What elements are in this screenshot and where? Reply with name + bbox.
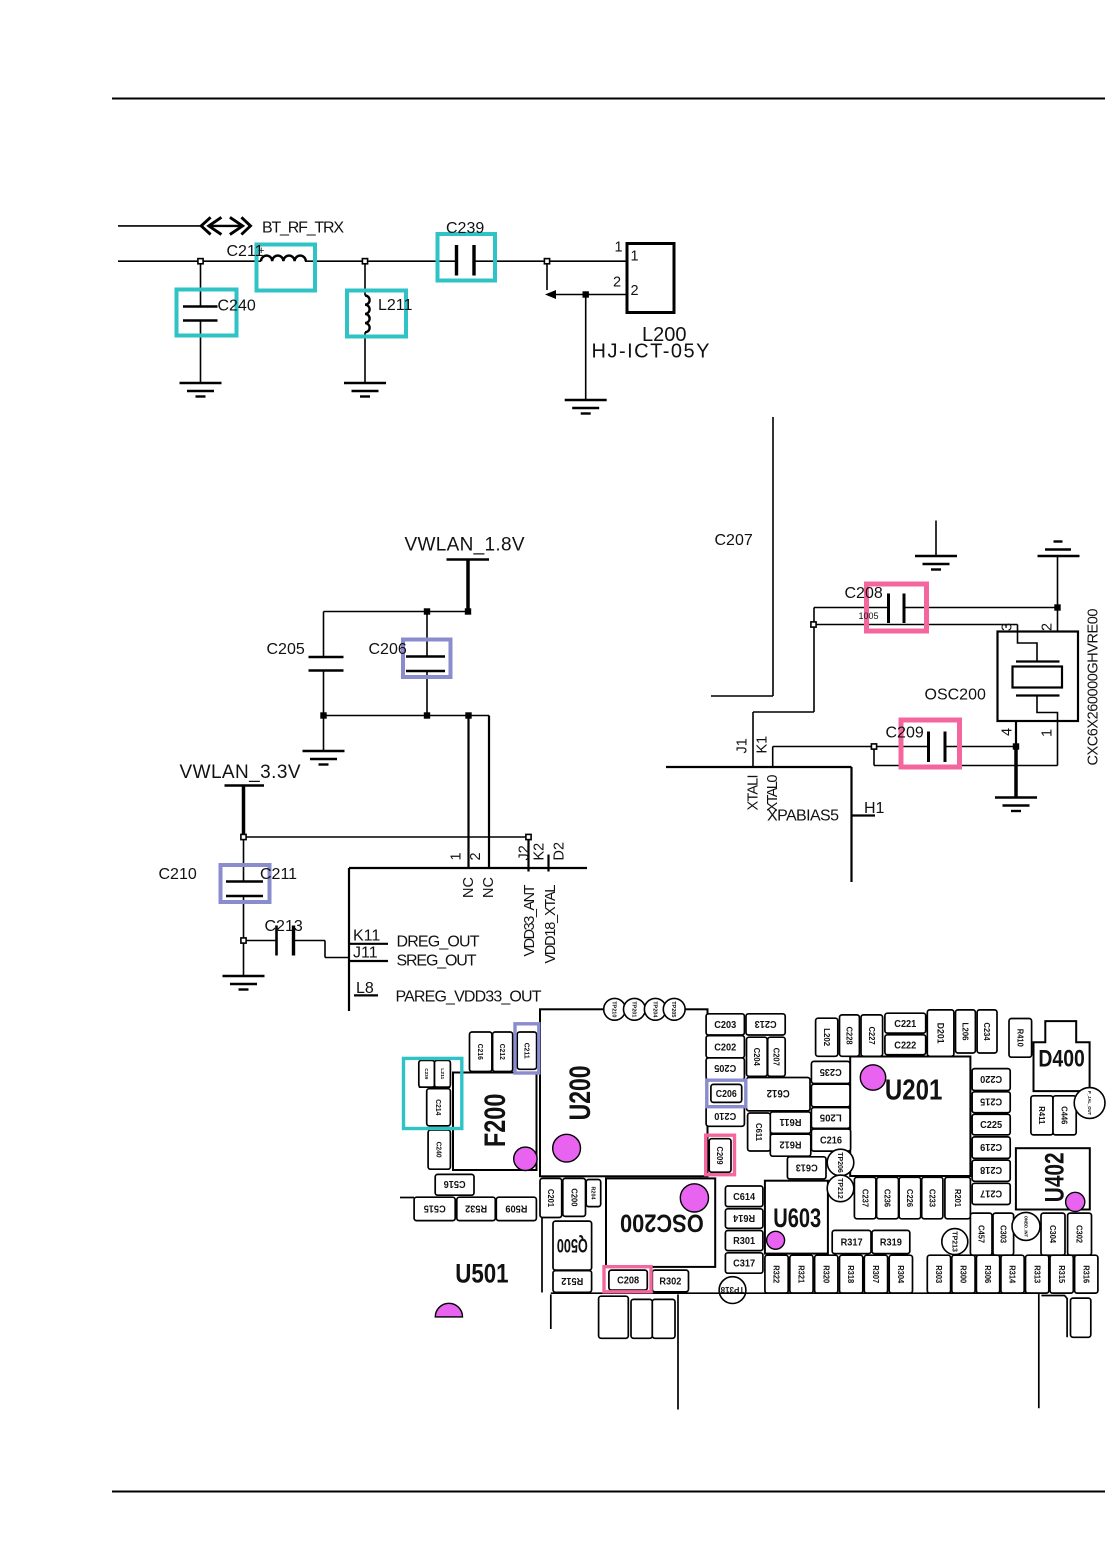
svg-text:C214: C214: [434, 1099, 441, 1115]
svg-text:2: 2: [613, 275, 621, 291]
svg-text:1005: 1005: [859, 611, 879, 621]
svg-text:C317: C317: [733, 1259, 755, 1270]
svg-text:C219: C219: [980, 1141, 1002, 1152]
svg-text:VDD33_ANT: VDD33_ANT: [522, 884, 538, 956]
svg-text:R532: R532: [465, 1202, 487, 1213]
svg-text:ONBD_INT: ONBD_INT: [1024, 1216, 1029, 1238]
svg-text:C212: C212: [498, 1044, 505, 1060]
svg-text:J1: J1: [734, 738, 750, 753]
svg-text:C201: C201: [546, 1189, 555, 1208]
svg-text:R614: R614: [733, 1212, 755, 1223]
svg-text:R611: R611: [779, 1116, 801, 1127]
svg-text:C210: C210: [159, 866, 197, 883]
svg-text:DREG_OUT: DREG_OUT: [397, 934, 480, 951]
svg-text:U603: U603: [773, 1203, 821, 1233]
svg-text:XTAL0: XTAL0: [765, 775, 781, 812]
svg-text:C207: C207: [715, 532, 753, 549]
svg-text:R313: R313: [1032, 1265, 1041, 1284]
svg-text:H1: H1: [864, 800, 885, 817]
svg-text:J2: J2: [516, 845, 532, 860]
svg-text:2: 2: [1039, 623, 1055, 631]
svg-text:L205: L205: [819, 1111, 841, 1122]
svg-text:C515: C515: [423, 1202, 445, 1213]
svg-text:C220: C220: [980, 1073, 1002, 1084]
svg-text:D201: D201: [935, 1023, 945, 1044]
svg-text:C303: C303: [998, 1225, 1007, 1244]
svg-text:R301: R301: [733, 1236, 755, 1247]
svg-text:TP212: TP212: [836, 1178, 843, 1199]
svg-text:C206: C206: [716, 1089, 737, 1100]
svg-text:C239: C239: [424, 1068, 429, 1079]
svg-text:C240: C240: [435, 1142, 442, 1158]
svg-text:R410: R410: [1015, 1029, 1024, 1048]
svg-text:C208: C208: [845, 585, 883, 602]
svg-text:TP210: TP210: [611, 1001, 617, 1017]
svg-text:R306: R306: [983, 1265, 992, 1284]
svg-text:C200: C200: [569, 1188, 578, 1207]
svg-text:C217: C217: [980, 1187, 1002, 1198]
svg-text:R314: R314: [1008, 1265, 1017, 1284]
svg-text:C221: C221: [894, 1019, 916, 1030]
svg-text:R302: R302: [659, 1277, 681, 1288]
svg-text:C222: C222: [894, 1040, 916, 1051]
svg-text:C457: C457: [976, 1225, 985, 1244]
svg-text:U201: U201: [885, 1074, 942, 1106]
svg-text:HJ-ICT-05Y: HJ-ICT-05Y: [592, 341, 710, 363]
svg-text:C302: C302: [1075, 1225, 1084, 1244]
svg-text:TP205: TP205: [670, 1001, 676, 1017]
svg-text:R316: R316: [1081, 1265, 1090, 1284]
svg-text:C304: C304: [1048, 1225, 1057, 1244]
svg-text:D400: D400: [1038, 1045, 1084, 1072]
svg-text:R304: R304: [896, 1265, 905, 1284]
svg-text:C205: C205: [714, 1062, 736, 1073]
svg-text:BT_RF_TRX: BT_RF_TRX: [262, 220, 344, 237]
svg-text:C202: C202: [714, 1042, 736, 1053]
svg-text:U501: U501: [455, 1258, 508, 1288]
svg-text:C210: C210: [714, 1110, 736, 1121]
svg-text:L211: L211: [440, 1068, 445, 1079]
svg-text:R315: R315: [1057, 1265, 1066, 1284]
svg-text:C613: C613: [795, 1161, 817, 1172]
svg-text:U200: U200: [564, 1065, 597, 1120]
svg-text:Q500: Q500: [557, 1234, 588, 1255]
svg-text:R204: R204: [590, 1187, 596, 1201]
svg-text:K11: K11: [353, 928, 380, 945]
svg-text:1: 1: [1039, 729, 1055, 737]
svg-text:PAREG_VDD33_OUT: PAREG_VDD33_OUT: [396, 989, 542, 1006]
svg-text:3: 3: [999, 623, 1015, 631]
svg-text:4: 4: [999, 728, 1015, 736]
svg-text:C227: C227: [867, 1027, 876, 1046]
svg-text:L8: L8: [356, 980, 374, 997]
svg-text:C612: C612: [767, 1087, 790, 1099]
svg-text:C204: C204: [752, 1048, 761, 1067]
svg-text:XTALI: XTALI: [746, 775, 762, 811]
svg-text:SREG_OUT: SREG_OUT: [397, 953, 477, 970]
svg-text:R201: R201: [953, 1189, 962, 1208]
svg-text:R300: R300: [959, 1265, 968, 1284]
svg-text:L202: L202: [822, 1028, 831, 1047]
svg-text:C215: C215: [980, 1096, 1002, 1107]
svg-text:R411: R411: [1037, 1106, 1046, 1125]
svg-text:OSC200: OSC200: [925, 687, 986, 704]
svg-text:C446: C446: [1060, 1106, 1069, 1125]
svg-text:TP206: TP206: [836, 1152, 843, 1173]
svg-text:K1: K1: [755, 736, 771, 754]
svg-text:R307: R307: [871, 1265, 880, 1284]
svg-text:C209: C209: [886, 725, 924, 742]
svg-text:L211: L211: [378, 297, 413, 314]
svg-text:C207: C207: [772, 1048, 781, 1067]
svg-text:1: 1: [631, 249, 639, 265]
svg-text:1: 1: [449, 852, 465, 860]
svg-text:C239: C239: [446, 220, 484, 237]
svg-text:OSC200: OSC200: [620, 1209, 704, 1237]
svg-text:C205: C205: [267, 641, 305, 658]
svg-text:C233: C233: [927, 1189, 936, 1208]
svg-text:R318: R318: [846, 1265, 855, 1284]
svg-text:D2: D2: [551, 842, 567, 861]
svg-text:TP213: TP213: [950, 1231, 957, 1252]
svg-text:F200: F200: [479, 1094, 512, 1148]
svg-text:C228: C228: [845, 1027, 854, 1046]
svg-text:C213: C213: [265, 918, 303, 935]
svg-text:R512: R512: [561, 1275, 583, 1286]
svg-text:C216: C216: [476, 1044, 483, 1060]
svg-text:C206: C206: [369, 641, 407, 658]
svg-text:C209: C209: [715, 1147, 724, 1166]
svg-text:+: +: [258, 245, 264, 257]
svg-text:R612: R612: [779, 1139, 801, 1150]
svg-text:1: 1: [615, 240, 623, 256]
svg-text:VWLAN_1.8V: VWLAN_1.8V: [405, 535, 525, 556]
svg-text:C237: C237: [860, 1189, 869, 1208]
svg-text:CXC6X260000GHVRE00: CXC6X260000GHVRE00: [1086, 609, 1102, 766]
svg-text:R321: R321: [797, 1265, 806, 1284]
svg-text:C218: C218: [980, 1164, 1002, 1175]
svg-text:VDD18_XTAL: VDD18_XTAL: [543, 885, 559, 964]
svg-text:J11: J11: [353, 945, 378, 962]
svg-text:C203: C203: [714, 1020, 736, 1031]
svg-text:VWLAN_3.3V: VWLAN_3.3V: [180, 762, 301, 783]
svg-text:NC: NC: [481, 877, 497, 898]
svg-text:C240: C240: [218, 298, 256, 315]
svg-text:C211: C211: [522, 1043, 529, 1059]
svg-text:C225: C225: [980, 1120, 1002, 1131]
svg-text:R509: R509: [505, 1202, 527, 1213]
svg-text:C216: C216: [820, 1136, 842, 1147]
svg-text:C234: C234: [982, 1023, 991, 1042]
svg-text:C235: C235: [819, 1066, 841, 1077]
svg-text:U402: U402: [1039, 1153, 1069, 1203]
svg-text:P_JAL_OUT: P_JAL_OUT: [1087, 1091, 1092, 1116]
svg-text:2: 2: [631, 283, 639, 299]
svg-text:NC: NC: [461, 877, 477, 898]
svg-text:C213: C213: [754, 1018, 776, 1029]
svg-text:C226: C226: [905, 1189, 914, 1208]
svg-text:R319: R319: [880, 1238, 902, 1249]
svg-text:C611: C611: [754, 1123, 763, 1142]
svg-text:R322: R322: [772, 1265, 781, 1284]
svg-text:C614: C614: [733, 1192, 755, 1203]
svg-text:2: 2: [468, 852, 484, 860]
svg-text:C516: C516: [443, 1178, 465, 1189]
svg-text:TP201: TP201: [630, 1001, 636, 1017]
svg-text:K2: K2: [532, 843, 548, 861]
svg-text:R320: R320: [821, 1265, 830, 1284]
svg-text:R303: R303: [934, 1265, 943, 1284]
svg-text:L206: L206: [961, 1023, 970, 1042]
svg-text:R317: R317: [841, 1238, 863, 1249]
svg-text:C208: C208: [617, 1276, 639, 1287]
svg-text:C211: C211: [260, 866, 297, 883]
svg-text:C236: C236: [883, 1189, 892, 1208]
svg-text:TP204: TP204: [651, 1001, 657, 1018]
